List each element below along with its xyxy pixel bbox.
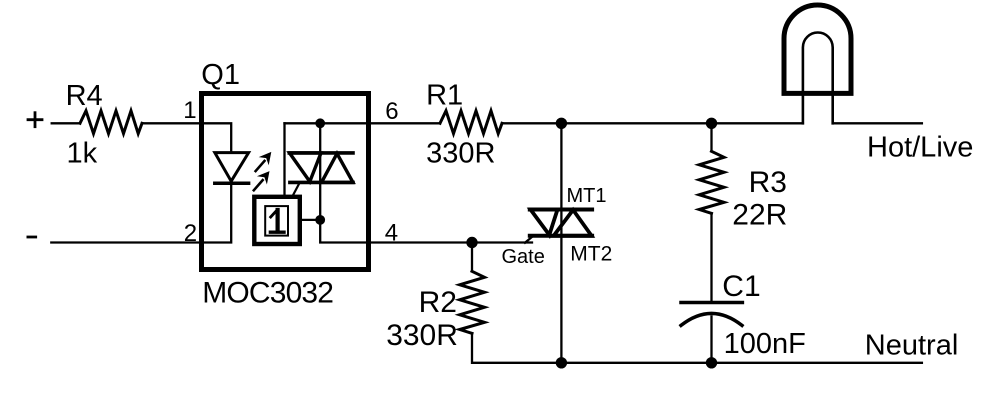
svg-text:100nF: 100nF [724,328,806,360]
wire R1 to lamp [502,122,803,124]
wire lamp to right end [833,122,922,124]
minus terminal [28,236,36,239]
svg-text:MT1: MT1 [567,185,607,207]
svg-text:2: 2 [184,220,197,247]
svg-text:Hot/Live: Hot/Live [867,132,973,164]
wire main vertical through detector triac to pin4 [320,123,532,242]
svg-text:22R: 22R [732,198,787,231]
numeral 1 glyph [270,210,284,232]
svg-text:MT2: MT2 [570,243,612,266]
resistor R3 [699,151,724,213]
light arrow 2 [254,171,270,190]
resistor R2 [460,271,485,333]
node dot top inside [315,118,325,128]
svg-text:4: 4 [385,219,398,246]
wire trigger box to vertical [300,219,320,221]
wire R2 to neutral rail [472,333,922,362]
lamp filament inner loop [803,33,833,124]
svg-text:6: 6 [385,98,398,125]
capacitor C1 bottom curved plate [681,313,742,325]
resistor R4 [80,111,142,134]
wire - to pin2 [51,241,201,243]
trigger box outer [254,197,299,244]
svg-text:330R: 330R [426,137,495,169]
detector triac bottom bar [290,181,353,185]
node B dot [706,118,717,129]
light arrow 1 [256,152,272,171]
node gate dot [466,237,477,248]
plus terminal [28,113,42,127]
svg-text:Q1: Q1 [201,59,240,91]
wire diagonal trigger to triac [292,184,299,197]
detector triac top bar [289,151,353,155]
trigger box inner frame [265,206,288,236]
wire R3 to C1 [710,213,712,302]
lamp LA1 outer envelope [784,5,851,93]
node dot triac-neutral [556,357,567,368]
svg-text:330R: 330R [386,319,458,352]
triac T1 left triangle [531,210,558,235]
triac T1 bottom bar [530,234,592,238]
wire left vertical to trigger box [283,123,285,197]
triac T1 right triangle [554,210,592,236]
svg-text:MOC3032: MOC3032 [202,276,333,309]
detector triac right triangle [322,154,354,183]
wire gate to R2 [471,243,473,272]
wire node B to R3 [710,123,712,151]
svg-text:Neutral: Neutral [865,329,959,361]
capacitor C1 top plate [681,301,742,305]
LED D1 [215,153,249,184]
node dot trigger [315,215,325,225]
svg-text:R4: R4 [66,80,103,112]
wire pin1 inside [202,123,232,152]
wire triac vertical [560,123,562,362]
svg-text:R1: R1 [426,80,463,112]
wire LED to pin2 [202,183,232,242]
triac T1 top bar [530,208,592,212]
svg-text:C1: C1 [722,270,760,303]
svg-text:1: 1 [183,97,196,124]
node A dot [556,118,567,129]
svg-text:1k: 1k [67,137,98,169]
wire + to R4 [52,122,80,124]
detector triac left triangle [290,153,322,182]
svg-text:R3: R3 [749,166,787,199]
resistor R1 [440,111,502,134]
svg-text:Gate: Gate [502,246,545,268]
node dot C1-neutral [706,357,717,368]
wire C1 to neutral [710,317,712,363]
wire gate kink [525,236,539,243]
svg-text:R2: R2 [419,286,457,319]
optocoupler Q1 package outline [202,94,369,270]
wire R4 to pin1 [142,122,202,124]
wire pin6 inside top [285,122,441,124]
